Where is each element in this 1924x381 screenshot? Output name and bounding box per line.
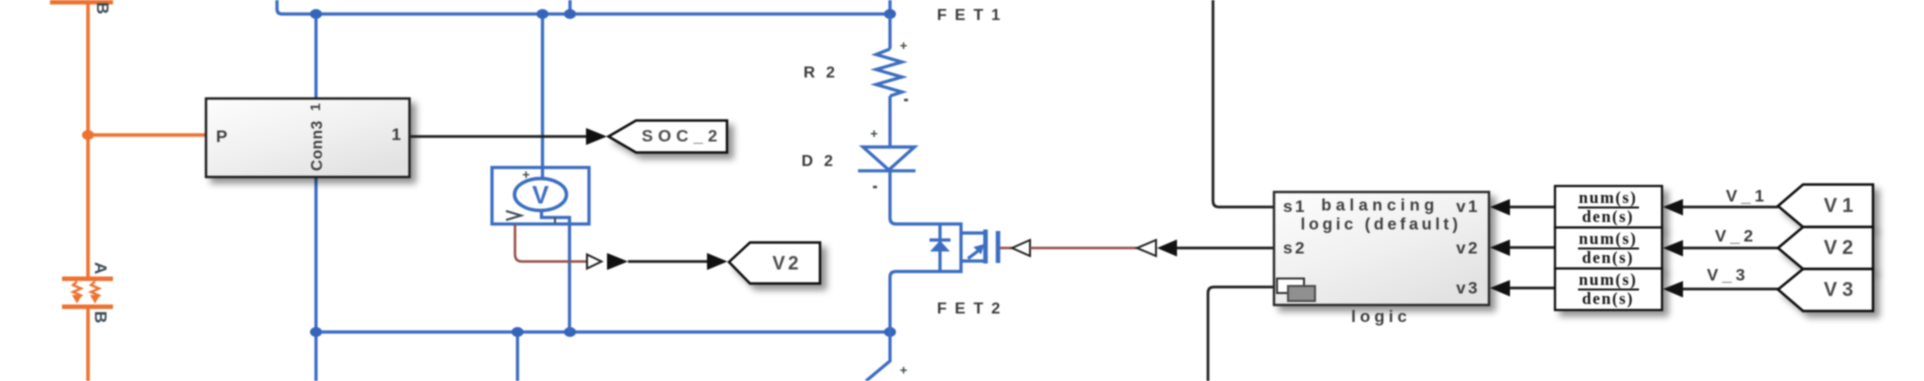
wire v3: [1510, 287, 1555, 290]
diode D2: [863, 147, 915, 170]
arrowhead into tf3: [1663, 281, 1683, 298]
variant badge: [1277, 279, 1304, 294]
heat arrow 1: [73, 282, 81, 299]
body diode triangle: [930, 241, 950, 252]
svg-text:+: +: [900, 38, 908, 53]
svg-text:1: 1: [307, 103, 323, 111]
svg-text:B: B: [91, 311, 110, 323]
svg-text:den(s): den(s): [1582, 289, 1634, 308]
wire blue stub up at 570: [568, 0, 571, 14]
wire FET2 source to bottom edge: [866, 332, 890, 381]
svg-text:v3: v3: [1456, 279, 1480, 298]
wire s2: [1177, 247, 1274, 250]
conductive heat transfer element top plate: [62, 277, 113, 282]
wire bus to R2: [888, 14, 891, 49]
svg-text:FET2: FET2: [937, 301, 1008, 318]
wire gate lead: [1000, 247, 1012, 250]
minus tick: [554, 218, 556, 223]
arrowhead v3: [1490, 280, 1510, 297]
svg-text:R2: R2: [804, 65, 846, 82]
arrowhead into tf1: [1663, 199, 1683, 216]
PS port mark: [506, 211, 521, 220]
svg-text:den(s): den(s): [1582, 207, 1634, 226]
wire v1: [1510, 206, 1555, 209]
arrowhead v1: [1490, 199, 1510, 216]
node bottom bus junctions: [310, 327, 322, 337]
svg-text:logic (default): logic (default): [1301, 216, 1462, 234]
arrowhead V2: [707, 253, 728, 270]
wire SOC_2: [410, 135, 589, 138]
wire V_3: [1683, 288, 1778, 291]
wire stub down at 517: [516, 332, 519, 381]
svg-text:s1: s1: [1283, 197, 1307, 216]
conductive heat transfer element bottom plate: [62, 305, 113, 310]
svg-text:balancing: balancing: [1321, 197, 1439, 215]
from tag V3: [1778, 269, 1873, 311]
arrowhead SOC_2: [586, 128, 607, 145]
wire sensor top: [541, 14, 544, 179]
subsystem Conn3: [206, 99, 410, 178]
wire orange to Conn3 P: [88, 133, 206, 137]
svg-text:num(s): num(s): [1579, 229, 1638, 248]
svg-text:V1: V1: [1824, 195, 1858, 217]
from tag V2: [1778, 227, 1873, 269]
heat arrow 2: [91, 282, 99, 299]
svg-text:SOC_2: SOC_2: [642, 127, 723, 146]
wire blue top bus: [277, 0, 890, 14]
wire PS brown from sensor: [515, 224, 587, 262]
wire R2 to D2: [888, 96, 891, 147]
svg-text:V_3: V_3: [1707, 266, 1749, 285]
svg-text:s2: s2: [1283, 239, 1307, 258]
voltage sensor box: [492, 168, 589, 225]
wire PS dark red: [1030, 247, 1137, 250]
transfer fcn 2: [1555, 228, 1662, 269]
wire Conn3 bottom through bus to edge: [314, 177, 317, 381]
wire D2 to FET2 drain and source loop: [890, 171, 961, 332]
svg-text:den(s): den(s): [1582, 248, 1634, 267]
wire orange vertical lower: [86, 309, 90, 381]
battery block bottom edge (cropped): [50, 0, 113, 5]
svg-text:+: +: [870, 126, 878, 141]
arrow into s2 wire: [1157, 240, 1177, 257]
block balancing logic: [1274, 192, 1489, 305]
svg-text:logic: logic: [1351, 307, 1411, 326]
PS triangle 2: [1137, 240, 1156, 256]
PS triangle at gate: [1012, 240, 1030, 256]
resistor R2: [876, 49, 902, 96]
svg-text:V2: V2: [1824, 237, 1858, 259]
wire V_1: [1683, 206, 1778, 209]
svg-text:v2: v2: [1456, 239, 1480, 258]
node top bus junctions: [310, 9, 322, 19]
transfer fcn 3: [1555, 269, 1662, 311]
svg-text:V3: V3: [1824, 279, 1858, 301]
transfer fcn 1: [1555, 186, 1662, 228]
mosfet FET2 bottom stub: [961, 259, 984, 262]
svg-text:D2: D2: [802, 153, 844, 170]
wire v2: [1510, 246, 1555, 249]
svg-text:V_2: V_2: [1715, 227, 1757, 246]
mosfet FET2 gate bar: [996, 231, 1001, 263]
wire s1 from top: [1213, 0, 1274, 207]
voltage sensor circle: [515, 179, 567, 211]
arrowhead v2: [1490, 240, 1510, 257]
goto tag SOC_2: [609, 121, 728, 153]
mosfet FET2 channel: [983, 230, 988, 264]
svg-text:num(s): num(s): [1579, 188, 1638, 207]
svg-text:P: P: [216, 127, 227, 146]
svg-text:num(s): num(s): [1579, 270, 1638, 289]
label - R2: [904, 99, 908, 102]
converter out arrow: [607, 253, 628, 270]
svg-text:V2: V2: [772, 254, 801, 275]
mosfet FET2 top stub: [961, 231, 984, 234]
svg-text:V_1: V_1: [1726, 187, 1768, 206]
wire V_2: [1683, 247, 1778, 250]
svg-text:+: +: [900, 363, 908, 378]
mosfet FET2 source arrow: [968, 251, 978, 259]
svg-text:v1: v1: [1456, 197, 1480, 216]
wire third port from bottom: [1208, 287, 1277, 381]
wire sensor minus out: [542, 211, 570, 333]
wire blue bottom bus: [316, 330, 890, 333]
svg-text:V: V: [532, 182, 549, 210]
goto tag V2: [729, 243, 820, 284]
wire blue stub up at 890: [888, 0, 891, 14]
svg-text:Conn3: Conn3: [309, 120, 326, 171]
wire to V2: [628, 260, 709, 263]
svg-text:A: A: [91, 262, 110, 274]
label - D2: [873, 186, 877, 189]
svg-text:FET1: FET1: [937, 7, 1008, 24]
from tag V1: [1778, 185, 1873, 228]
wire orange vertical upper: [86, 3, 90, 277]
svg-text:1: 1: [392, 125, 401, 144]
body diode bar: [930, 238, 951, 241]
node orange junction: [82, 130, 94, 140]
PS input triangle: [587, 255, 602, 269]
wire Conn3 top: [314, 14, 317, 98]
arrowhead into tf2: [1663, 240, 1683, 257]
body diode line: [938, 224, 941, 272]
svg-text:B: B: [93, 2, 112, 14]
